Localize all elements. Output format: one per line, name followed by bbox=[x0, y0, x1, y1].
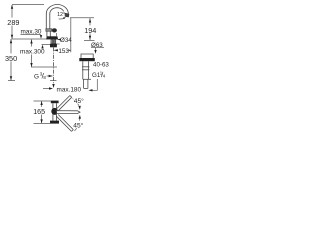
bottom view: mounting line bbox=[34, 101, 51, 123]
dimension 194 line bbox=[89, 18, 91, 40]
max180 leader line bbox=[43, 88, 52, 90]
dimension 153 extension line bbox=[70, 18, 72, 52]
max180 right arrowhead bbox=[49, 87, 53, 89]
bottom view body top cap bbox=[51, 101, 59, 104]
svg-text:max.180: max.180 bbox=[57, 86, 82, 93]
svg-text:165: 165 bbox=[33, 108, 45, 116]
shank extension tick bbox=[56, 43, 60, 45]
dimension max.300 line bbox=[31, 40, 33, 68]
text 12deg bbox=[57, 11, 65, 16]
inner pipe bbox=[84, 79, 88, 88]
arrowheads dimension 350 bbox=[10, 39, 12, 80]
counter bottom line bbox=[42, 44, 51, 46]
lever knob bbox=[52, 28, 57, 32]
angle leader arc at outlet bbox=[59, 18, 65, 19]
faucet spout gooseneck bbox=[46, 4, 68, 29]
axis down arrow (max180) bbox=[52, 84, 54, 88]
svg-text:Ø34: Ø34 bbox=[60, 37, 72, 44]
leader G1 1/4 bbox=[90, 79, 98, 90]
hose / axis below bbox=[53, 40, 55, 84]
arrowheads dimension 289 bbox=[11, 5, 13, 39]
spout outlet (12 deg tip) bbox=[63, 13, 69, 17]
extension line spout top bbox=[12, 4, 44, 6]
dimension 289 line bbox=[11, 5, 13, 39]
text 165 bbox=[33, 107, 46, 115]
lever down 45 bbox=[56, 115, 73, 132]
arrow 034 bbox=[58, 39, 61, 41]
svg-text:max.30: max.30 bbox=[21, 29, 42, 36]
text max.300 bbox=[20, 47, 42, 55]
tick 194 bottom bbox=[84, 40, 95, 42]
arrowheads 165 bbox=[40, 101, 42, 123]
hose end reference line bbox=[31, 66, 57, 68]
bottom view base cap bbox=[50, 121, 59, 124]
leader 063 bbox=[91, 48, 104, 51]
svg-text:350: 350 bbox=[5, 54, 17, 63]
mounting nut bbox=[50, 44, 57, 48]
tick hose end left bbox=[8, 80, 15, 82]
faucet body column bbox=[47, 31, 50, 36]
waste pipe bbox=[82, 61, 91, 79]
hose bottom tick bbox=[50, 80, 57, 82]
svg-text:194: 194 bbox=[84, 26, 96, 35]
svg-text:40-63: 40-63 bbox=[93, 62, 109, 69]
arrow G3/8 bbox=[47, 75, 53, 77]
text 350 bbox=[4, 53, 18, 61]
svg-text:12°: 12° bbox=[57, 12, 65, 18]
lever horizontal bbox=[57, 111, 80, 114]
arrowheads dimension 194 bbox=[89, 19, 91, 40]
right detail: waste body top bbox=[81, 54, 93, 58]
lever up 45 bbox=[57, 96, 72, 111]
text 45deg lower bbox=[73, 121, 86, 129]
base flange bbox=[46, 37, 57, 40]
svg-text:289: 289 bbox=[7, 18, 19, 27]
threaded shank bbox=[51, 39, 56, 44]
waste flange bbox=[79, 58, 95, 61]
svg-text:Ø63: Ø63 bbox=[91, 42, 103, 49]
pivot joint bbox=[51, 108, 58, 115]
dimension 165 line bbox=[41, 101, 43, 123]
dimension 194 extension line bbox=[70, 17, 94, 19]
svg-text:45°: 45° bbox=[73, 121, 83, 129]
flange tick bbox=[56, 33, 58, 36]
bottom view body bbox=[53, 103, 57, 120]
angle arc upper bbox=[73, 99, 80, 108]
arrow max.30 down bbox=[40, 35, 42, 39]
arrow max.30 up (counter bottom) bbox=[41, 45, 43, 49]
text 153 bbox=[58, 47, 69, 54]
dimension 153 bbox=[54, 49, 71, 51]
dimension 350 line bbox=[10, 39, 12, 81]
text 289 bbox=[4, 11, 109, 129]
svg-text:45°: 45° bbox=[74, 97, 84, 105]
angle arc lower bbox=[75, 117, 80, 131]
text 45deg upper bbox=[73, 96, 86, 104]
arrowheads max.300 bbox=[30, 40, 32, 67]
max.30 underline bbox=[21, 34, 41, 36]
lever cartridge bbox=[46, 29, 52, 31]
svg-text:G: G bbox=[34, 74, 39, 81]
svg-text:153: 153 bbox=[58, 48, 69, 55]
text 194 bbox=[84, 25, 97, 33]
svg-text:max.300: max.300 bbox=[20, 48, 45, 55]
counter top line bbox=[12, 38, 48, 40]
